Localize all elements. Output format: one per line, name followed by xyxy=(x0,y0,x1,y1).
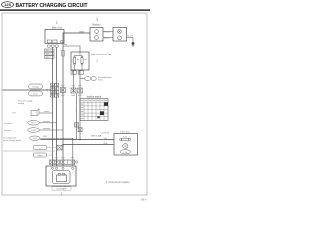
legend box L xyxy=(34,146,47,150)
engine block box xyxy=(113,28,127,42)
battery terminal - xyxy=(95,36,99,40)
svg-text:Ignition switch: Ignition switch xyxy=(87,96,102,99)
ground xyxy=(132,42,135,46)
svg-text:SBF-1: SBF-1 xyxy=(45,50,50,52)
fusible link A xyxy=(73,56,75,65)
internal split wire xyxy=(75,52,83,70)
oval F-45 xyxy=(29,84,43,89)
fuse box right xyxy=(114,134,138,156)
battery terminal + xyxy=(95,30,99,34)
left branch wire xyxy=(3,89,51,91)
svg-text:W-B: W-B xyxy=(104,143,109,145)
svg-text:SBF-2: SBF-2 xyxy=(45,54,50,56)
arrow ticks xyxy=(46,89,62,91)
svg-text:SBF-4: SBF-4 xyxy=(45,57,50,59)
svg-text:routing: routing xyxy=(18,102,24,105)
svg-text:4. Ground (on engine): 4. Ground (on engine) xyxy=(106,181,130,184)
connector on drop wire xyxy=(62,51,65,57)
legend leads xyxy=(47,147,58,149)
connector on lamp wire xyxy=(57,145,62,150)
header rule xyxy=(0,9,150,10)
svg-text:To power supply: To power supply xyxy=(18,101,32,103)
svg-text:I-10: I-10 xyxy=(33,138,36,140)
long wire charge lamp xyxy=(41,139,115,141)
wire row 4 xyxy=(40,137,73,139)
generator symbol xyxy=(53,171,71,184)
diagram frame xyxy=(2,13,147,195)
main fuse box xyxy=(45,30,64,44)
svg-text:Charge: Charge xyxy=(32,87,39,89)
oval I-10 xyxy=(30,136,40,140)
oval B-4 xyxy=(85,76,91,80)
svg-text:Fuse box: Fuse box xyxy=(121,131,131,133)
lamp circle xyxy=(123,143,128,148)
legend box Main xyxy=(34,153,47,157)
generator label xyxy=(52,187,71,190)
svg-text:meter (charge lamp): meter (charge lamp) xyxy=(3,139,21,142)
ignition switch table xyxy=(80,99,108,121)
wire labels above generator xyxy=(55,157,74,159)
connector pair under fuse box xyxy=(71,71,84,74)
long wire lower left xyxy=(3,150,55,152)
block terminal bolt xyxy=(118,30,122,34)
svg-text:To combination: To combination xyxy=(3,136,16,139)
high current fuse box xyxy=(71,52,89,70)
long wire ig feed xyxy=(63,144,114,146)
svg-text:F-16: F-16 xyxy=(123,136,127,138)
branch row 1 condenser xyxy=(12,109,53,116)
wire SBF down 1 xyxy=(52,47,54,166)
wire to high current fuse box xyxy=(63,46,80,52)
svg-text:B-36: B-36 xyxy=(32,130,36,132)
svg-text:B-13 MAIN: B-13 MAIN xyxy=(57,188,67,191)
oval i4 xyxy=(91,76,96,80)
wire to ground xyxy=(127,37,134,42)
terminal circle right xyxy=(75,161,77,163)
fusible link B xyxy=(81,56,83,65)
connector on drop 2 xyxy=(78,88,83,93)
svg-text:I-10: I-10 xyxy=(124,152,127,154)
page badge 125 xyxy=(2,2,14,8)
svg-text:125: 125 xyxy=(4,2,11,7)
generator box xyxy=(46,166,76,186)
branch to meter xyxy=(80,78,85,80)
connector block 2 xyxy=(61,160,75,164)
connector stack left xyxy=(50,84,58,98)
connector on battery wire xyxy=(61,88,66,93)
wire battery feed xyxy=(63,33,90,166)
wire SBF down 2 xyxy=(56,47,58,166)
wire code ticks xyxy=(61,44,82,95)
svg-text:GD-07: GD-07 xyxy=(127,35,134,37)
junction xyxy=(72,139,74,141)
branch row 3 xyxy=(4,128,63,133)
fuse SBF-2 xyxy=(53,40,57,43)
svg-text:Battery: Battery xyxy=(93,23,102,26)
svg-text:G N: G N xyxy=(12,113,16,115)
svg-text:B-37: B-37 xyxy=(32,123,36,125)
svg-text:To combination: To combination xyxy=(98,76,113,79)
wire charge lamp to generator xyxy=(72,138,74,166)
svg-text:To stereo: To stereo xyxy=(4,122,13,125)
block terminal xyxy=(118,36,122,40)
fuse value labels xyxy=(45,49,55,59)
fuse ratings xyxy=(72,60,87,62)
connector ovals under main fuse box xyxy=(47,45,50,48)
svg-text:High current fuse box: High current fuse box xyxy=(91,53,112,56)
svg-text:BATTERY CHARGING CIRCUIT: BATTERY CHARGING CIRCUIT xyxy=(16,3,88,9)
wire fuse box drop 1 xyxy=(73,70,75,93)
connector block 1 xyxy=(49,160,59,164)
fuse SBF-1 xyxy=(47,40,51,43)
connector on drop 1 xyxy=(71,88,76,93)
svg-text:To horn: To horn xyxy=(4,130,11,132)
branch row 2 xyxy=(4,121,57,126)
wire battery to block xyxy=(103,31,113,33)
svg-text:AC-01: AC-01 xyxy=(104,36,111,39)
fuse F-16 xyxy=(120,138,131,140)
wire ignition feed xyxy=(76,94,78,140)
svg-text:Main: Main xyxy=(38,155,44,157)
battery box xyxy=(90,28,103,42)
generator terminals xyxy=(52,167,54,169)
terminal circle xyxy=(60,40,63,43)
svg-text:MB-4: MB-4 xyxy=(141,199,147,202)
oval I-10 right xyxy=(120,150,130,154)
oval F-46 xyxy=(29,91,43,96)
svg-text:W-R: W-R xyxy=(43,136,48,138)
svg-text:Main fuse: Main fuse xyxy=(52,26,63,29)
svg-text:Y-R: Y-R xyxy=(104,138,108,140)
connector stack below table xyxy=(75,123,83,132)
svg-text:meter: meter xyxy=(98,79,104,82)
svg-text:L-R W-16: L-R W-16 xyxy=(101,133,110,135)
wire fuse box drop 2 xyxy=(79,70,81,140)
svg-text:SBF-6 30A: SBF-6 30A xyxy=(91,135,102,138)
